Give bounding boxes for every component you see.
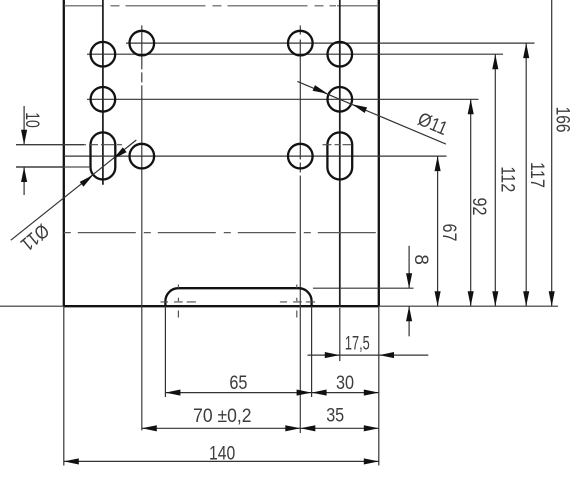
leader diameter 11 left line — [11, 140, 137, 240]
row line y54 (112) — [87, 53, 503, 55]
leader diameter 11 right arrow upper — [313, 85, 329, 96]
leader diameter 11 right line — [297, 81, 446, 144]
hole A2 top row right — [288, 31, 313, 56]
cutout top extension line — [313, 287, 414, 289]
svg-text:30: 30 — [336, 373, 354, 394]
dimension 92 arrow bottom — [468, 291, 474, 306]
leader diameter 11 right arrow lower — [351, 101, 367, 112]
dimension 140 arrow left — [64, 458, 79, 464]
dimension 10 line lower — [23, 167, 25, 195]
slot S1 upper arc centerline — [16, 144, 122, 146]
dimension 65 arrow left — [165, 390, 180, 396]
dimension 10 arrow lower — [21, 167, 27, 182]
hole B2 second row right — [328, 42, 353, 67]
dimension 112 line — [494, 54, 496, 306]
dimension 35 arrow left — [300, 425, 315, 431]
row line y99 (92) — [87, 98, 479, 100]
svg-text:140: 140 — [209, 443, 235, 464]
dimension 70 arrow left — [142, 425, 157, 431]
dimension 92 arrow top — [468, 99, 474, 114]
dimension 140 line — [64, 460, 379, 462]
dimension 8 line lower — [408, 306, 410, 336]
svg-text:112: 112 — [496, 166, 517, 192]
hole C2 third row right — [328, 87, 353, 112]
cutout outline — [165, 288, 311, 306]
dimension 117 arrow bottom — [523, 291, 529, 306]
cutout right side extension — [311, 306, 313, 397]
svg-text:67: 67 — [438, 224, 459, 242]
hole column centerline right — [299, 26, 301, 434]
dimension 117 arrow top — [523, 43, 529, 58]
slot S2 arc centerline — [323, 144, 358, 146]
cutout right arc center mark vertical — [296, 285, 298, 318]
part left edge — [63, 0, 65, 306]
svg-text:10: 10 — [21, 112, 42, 128]
slot S2 right — [327, 132, 352, 179]
part right edge — [378, 0, 380, 306]
dimension 17,5 line — [308, 354, 429, 356]
leader diameter 11 left arrow lower — [80, 173, 96, 187]
dimension 10 lower extension line — [16, 166, 64, 168]
dimension 8 line upper — [408, 246, 410, 288]
dimension 17,5 extension line — [339, 308, 341, 361]
svg-text:166: 166 — [552, 107, 573, 133]
cutout left arc center mark vertical — [177, 285, 179, 318]
svg-text:8: 8 — [410, 254, 431, 265]
dimension 30 arrow right — [364, 390, 379, 396]
dimension 70 line — [142, 427, 300, 429]
dimension 117 line — [525, 43, 527, 306]
dimension 10 line upper — [23, 106, 25, 145]
dimension 30 line — [312, 392, 379, 394]
dimension 67 arrow bottom — [435, 291, 441, 306]
dimension 112 arrow bottom — [492, 291, 498, 306]
hole C1 third row left — [91, 87, 116, 112]
dimension 140 arrow right — [364, 458, 379, 464]
dimension 92 line — [470, 99, 472, 306]
hole A1 top row left — [130, 31, 155, 56]
bottom edge projection line left — [0, 305, 64, 307]
dimension 8 arrow upper — [406, 273, 412, 288]
dimension 17,5 arrow right — [379, 352, 394, 358]
cutout left side extension — [164, 306, 166, 397]
cutout left arc center mark horizontal — [161, 301, 196, 303]
hole column centerline left — [141, 25, 143, 433]
top fold centerline middle — [111, 5, 337, 7]
dimension 10 upper extension line — [16, 144, 84, 146]
svg-text:70 ±0,2: 70 ±0,2 — [193, 406, 251, 427]
dimension 67 arrow top — [435, 156, 441, 171]
dimension 35 arrow right — [364, 425, 379, 431]
hole B1 second row left — [91, 42, 116, 67]
main horizontal centerline — [64, 232, 379, 234]
dimension 65 arrow right — [297, 390, 312, 396]
top fold centerline left tab — [64, 5, 103, 7]
dimension 112 arrow top — [492, 54, 498, 69]
cutout right arc center mark horizontal — [280, 301, 315, 303]
dimension 17,5 arrow left — [325, 352, 340, 358]
bend line left — [102, 0, 104, 185]
dimension 10 arrow upper — [21, 130, 27, 145]
dimension 70 arrow right — [285, 425, 300, 431]
top fold centerline right tab — [337, 5, 379, 7]
svg-text:92: 92 — [468, 198, 489, 216]
hole D2 slot row right — [288, 144, 313, 169]
dimension 35 line — [300, 427, 379, 429]
slot S1 lower arc centerline — [16, 166, 90, 168]
dimension 65 line — [165, 392, 311, 394]
part right edge extension — [378, 306, 380, 465]
bottom edge projection line right — [379, 305, 558, 307]
svg-text:17,5: 17,5 — [345, 333, 370, 354]
dimension 30 arrow left — [312, 390, 327, 396]
svg-text:117: 117 — [526, 162, 547, 188]
part bottom edge — [64, 305, 379, 307]
dimension 8 arrow lower — [406, 306, 412, 321]
slot S1 left — [91, 132, 116, 179]
hole D1 slot row left — [130, 144, 155, 169]
dimension 67 line — [437, 156, 439, 306]
svg-text:35: 35 — [326, 406, 344, 427]
dimension 166 line — [551, 0, 553, 306]
part left edge extension — [63, 306, 65, 465]
bend line right — [339, 0, 341, 306]
svg-text:65: 65 — [229, 373, 247, 394]
row line y156 (67) — [64, 155, 447, 157]
dimension 166 arrow bottom — [549, 291, 555, 306]
leader diameter 11 left arrow upper — [111, 147, 127, 161]
row line y43 (117) — [126, 42, 535, 44]
